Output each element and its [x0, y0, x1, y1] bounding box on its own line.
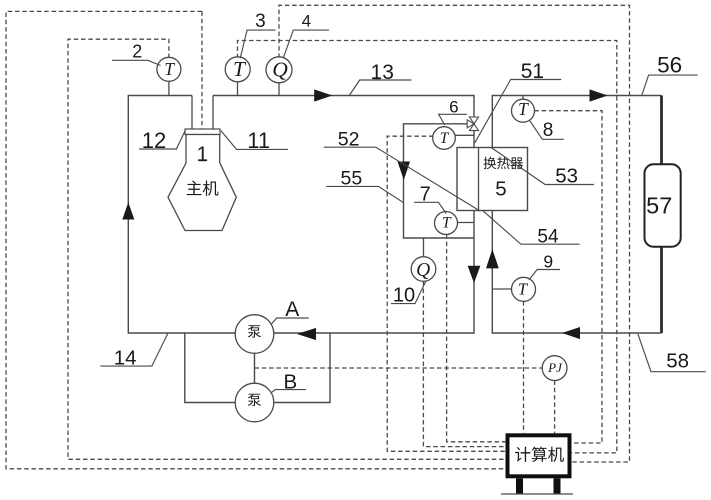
flow arrow up on left riser — [122, 202, 134, 219]
sensor T8 — [512, 99, 535, 122]
pipe: cooling tower riser (bold) — [660, 96, 663, 334]
pump B (泵) — [235, 383, 274, 422]
label 4 — [283, 30, 329, 58]
svg-text:51: 51 — [521, 60, 544, 83]
svg-text:7: 7 — [420, 184, 431, 206]
svg-text:2: 2 — [132, 42, 142, 62]
pipe: bypass 55 around heat exchanger — [404, 124, 475, 238]
wire: power meter PJ signal drop — [554, 381, 556, 434]
svg-text:1: 1 — [197, 143, 209, 166]
label 58 — [638, 334, 706, 372]
svg-text:T: T — [440, 130, 450, 147]
link: sensor T6 to HX inlet pipe — [444, 134, 474, 136]
pipe: chilled water return 14 (HX out, pumps, riser to engine) — [128, 96, 474, 334]
stem: sensor T3 — [237, 81, 239, 96]
label 8 — [530, 120, 564, 139]
svg-text:57: 57 — [646, 193, 672, 219]
label 56 — [642, 75, 698, 95]
svg-text:56: 56 — [657, 52, 682, 77]
svg-text:12: 12 — [142, 128, 166, 153]
pump A (泵) — [235, 315, 274, 354]
svg-text:Q: Q — [272, 57, 288, 81]
svg-text:14: 14 — [114, 347, 137, 370]
main engine 1 collar — [185, 129, 220, 135]
label 换热器 — [483, 157, 496, 169]
computer base line — [501, 493, 573, 495]
wire: engine 1 signal drop — [201, 11, 203, 129]
main engine 1 body — [168, 135, 236, 231]
svg-text:T: T — [518, 99, 529, 119]
svg-text:53: 53 — [555, 164, 578, 187]
svg-text:55: 55 — [341, 167, 363, 189]
svg-text:52: 52 — [338, 129, 360, 151]
svg-text:4: 4 — [302, 12, 311, 31]
flow arrow left into pump A — [297, 328, 316, 340]
svg-text:Q: Q — [416, 260, 430, 281]
label 51 — [475, 80, 562, 143]
sensor Q10 — [411, 257, 436, 282]
svg-text:5: 5 — [495, 177, 506, 200]
wire: sensor Q4 signal — [279, 5, 630, 462]
flow arrow on pipe 56 — [590, 89, 608, 101]
flow arrow left on return 58 — [562, 327, 580, 339]
cooling tower 57 — [645, 164, 681, 246]
sensor T7 — [435, 212, 458, 235]
link: sensor T7 to HX outlet pipe — [446, 222, 474, 224]
pipe: chilled water supply 13 (engine out to valve and HX) — [213, 96, 474, 149]
wire: sensor T2 signal — [68, 39, 506, 459]
flow arrow on pipe 13 — [314, 89, 332, 101]
pipe: pump A-B connector — [254, 353, 256, 383]
sensor T9 — [512, 277, 536, 301]
svg-text:6: 6 — [449, 98, 458, 117]
label 53 — [491, 148, 594, 185]
wire: sensor T3 signal — [238, 41, 617, 453]
pipe: pump B branch — [185, 333, 235, 403]
outer dashed signal frame (engine 1 to computer) — [6, 11, 506, 468]
valve 6 (three-way) — [470, 117, 479, 124]
label 2 — [112, 60, 161, 65]
svg-text:PJ: PJ — [547, 360, 563, 375]
label 55 — [326, 186, 404, 202]
label 11 — [221, 131, 288, 150]
svg-text:13: 13 — [371, 61, 394, 84]
label 12 — [139, 131, 185, 149]
label 7 — [414, 202, 446, 213]
pipe: cooling water supply 56 (HX to tower 57) — [492, 96, 661, 149]
computer legs — [516, 478, 523, 494]
stem: sensor T8 — [522, 96, 524, 100]
pipe: cooling water return 58 — [492, 211, 661, 334]
label A — [272, 318, 309, 324]
label 3 — [240, 30, 275, 58]
link: sensor T9 to cooling return pipe — [492, 288, 523, 290]
svg-text:11: 11 — [247, 128, 270, 153]
heat exchanger 5 (换热器) — [457, 148, 528, 211]
wire: sensor T7 signal — [447, 234, 506, 441]
label 10 — [391, 281, 426, 304]
svg-text:9: 9 — [543, 252, 553, 272]
label 6 — [439, 114, 467, 125]
stem: sensor Q4 — [278, 82, 280, 95]
main engine 1 (主机) neck — [191, 96, 193, 130]
label 13 — [350, 80, 412, 95]
pipe: pump B outlet loop — [274, 333, 330, 403]
svg-text:54: 54 — [537, 226, 559, 247]
label 14 — [100, 334, 167, 367]
svg-text:58: 58 — [666, 350, 689, 373]
computer (计算机) — [508, 435, 570, 476]
power meter PJ — [542, 356, 567, 381]
wire: sensor T8 signal — [534, 111, 602, 443]
flow arrow down on HX outlet — [468, 266, 481, 283]
sensor Q4 — [266, 57, 292, 83]
sensor T6 — [433, 127, 456, 150]
flow arrow down on bypass — [398, 162, 411, 181]
label 主机 — [187, 181, 202, 196]
wire: sensor T9 signal — [523, 301, 525, 433]
wire: sensor T6 signal — [387, 136, 505, 451]
sensor T3 — [225, 57, 250, 82]
label 9 — [529, 270, 560, 280]
label 52 — [324, 147, 480, 211]
wire: power meter PJ to pumps — [255, 367, 543, 369]
svg-text:8: 8 — [543, 120, 554, 141]
flow arrow up into HX bottom — [486, 249, 499, 268]
svg-text:A: A — [285, 298, 299, 321]
label 54 — [483, 211, 580, 244]
sensor T2 — [157, 57, 181, 81]
svg-text:3: 3 — [255, 11, 266, 32]
svg-text:T: T — [442, 215, 452, 232]
svg-text:T: T — [164, 59, 175, 79]
label B — [272, 390, 306, 393]
stem: sensor T2 — [168, 81, 170, 96]
svg-text:10: 10 — [393, 285, 415, 307]
svg-text:T: T — [233, 57, 247, 81]
svg-text:B: B — [284, 370, 298, 393]
stem: sensor Q10 to bypass — [423, 238, 425, 257]
wire: sensor Q10 signal — [423, 281, 505, 446]
